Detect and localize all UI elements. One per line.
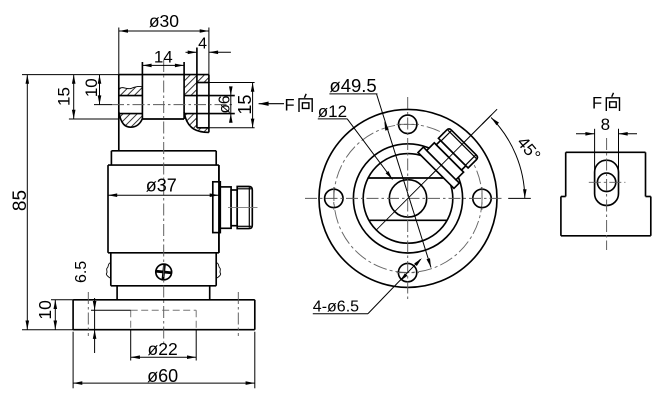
- svg-text:15: 15: [54, 87, 73, 106]
- svg-text:ø30: ø30: [149, 11, 179, 31]
- svg-text:4: 4: [198, 36, 207, 53]
- svg-text:F: F: [592, 95, 602, 113]
- svg-text:14: 14: [154, 48, 173, 67]
- svg-text:10: 10: [82, 78, 101, 97]
- svg-text:8: 8: [601, 115, 610, 134]
- svg-text:85: 85: [10, 190, 31, 211]
- svg-text:ø6: ø6: [216, 95, 233, 113]
- svg-text:4-ø6.5: 4-ø6.5: [313, 299, 359, 316]
- svg-text:F: F: [285, 97, 295, 115]
- svg-text:10: 10: [35, 300, 55, 320]
- svg-text:6.5: 6.5: [73, 261, 90, 283]
- svg-text:ø37: ø37: [146, 176, 177, 196]
- svg-text:ø60: ø60: [147, 366, 178, 386]
- svg-text:15: 15: [235, 95, 255, 115]
- svg-text:ø49.5: ø49.5: [329, 75, 376, 96]
- svg-text:ø12: ø12: [318, 102, 347, 121]
- svg-text:ø22: ø22: [148, 339, 178, 359]
